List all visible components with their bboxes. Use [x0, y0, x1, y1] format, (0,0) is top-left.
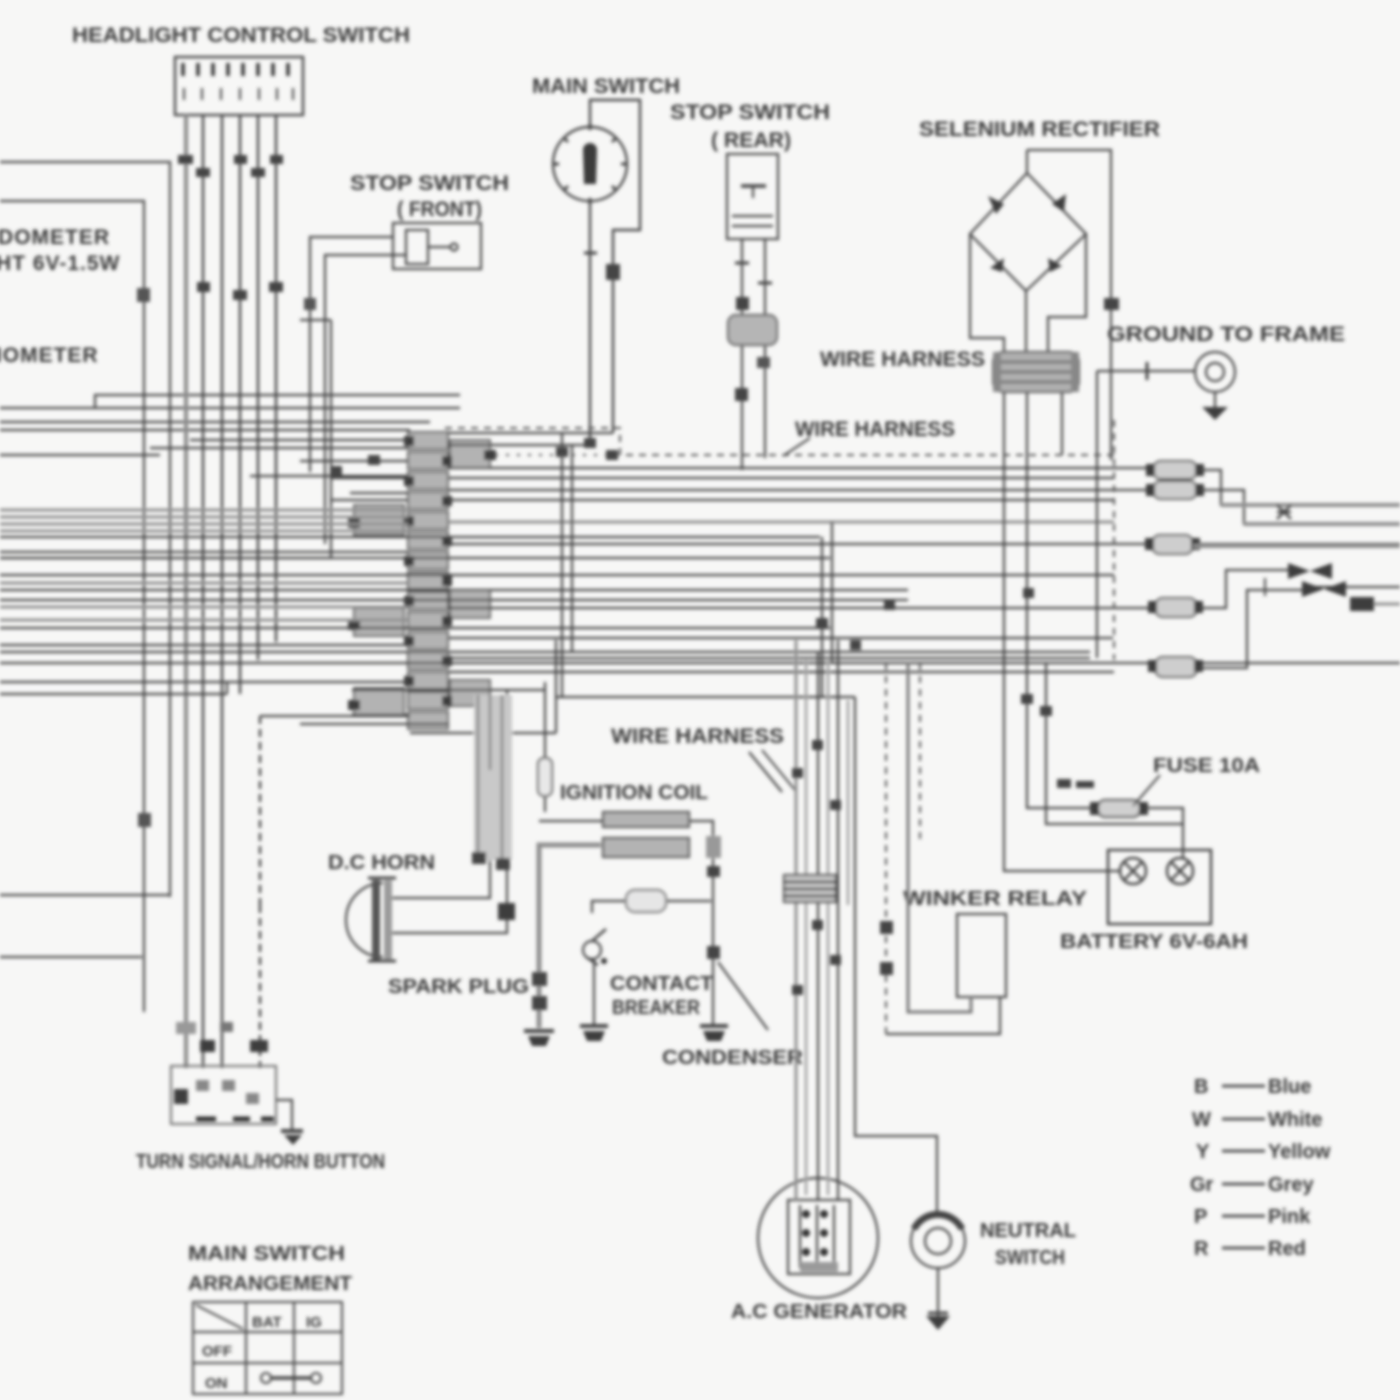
svg-text:SWITCH: SWITCH — [995, 1247, 1065, 1269]
svg-text:TACHOMETER: TACHOMETER — [0, 344, 99, 367]
svg-text:W: W — [1192, 1109, 1211, 1131]
svg-text:IG: IG — [306, 1314, 322, 1331]
svg-text:D.C HORN: D.C HORN — [328, 852, 435, 874]
svg-text:( FRONT): ( FRONT) — [397, 198, 482, 221]
svg-text:BREAKER: BREAKER — [612, 997, 700, 1019]
svg-text:HEADLIGHT CONTROL SWITCH: HEADLIGHT CONTROL SWITCH — [72, 24, 410, 47]
svg-text:ARRANGEMENT: ARRANGEMENT — [188, 1273, 352, 1295]
svg-text:TURN SIGNAL/HORN BUTTON: TURN SIGNAL/HORN BUTTON — [136, 1151, 385, 1173]
svg-text:Pink: Pink — [1268, 1206, 1311, 1228]
svg-text:BATTERY 6V-6AH: BATTERY 6V-6AH — [1060, 931, 1248, 953]
svg-text:WIRE HARNESS: WIRE HARNESS — [611, 725, 784, 748]
svg-text:Y: Y — [1196, 1141, 1210, 1163]
svg-text:WIRE HARNESS: WIRE HARNESS — [820, 348, 985, 371]
svg-text:OFF: OFF — [202, 1343, 232, 1360]
svg-text:IGNITION COIL: IGNITION COIL — [560, 782, 708, 804]
svg-text:ON: ON — [205, 1375, 228, 1392]
svg-text:WIRE HARNESS: WIRE HARNESS — [795, 418, 955, 441]
svg-text:Red: Red — [1268, 1238, 1306, 1260]
svg-text:SELENIUM RECTIFIER: SELENIUM RECTIFIER — [919, 118, 1160, 141]
svg-text:Grey: Grey — [1268, 1174, 1314, 1196]
svg-text:White: White — [1268, 1109, 1322, 1131]
svg-text:CONTACT: CONTACT — [610, 973, 713, 995]
svg-text:WINKER RELAY: WINKER RELAY — [903, 888, 1088, 910]
svg-text:R: R — [1194, 1238, 1209, 1260]
svg-text:MAIN SWITCH: MAIN SWITCH — [532, 75, 680, 98]
svg-text:STOP SWITCH: STOP SWITCH — [350, 172, 509, 195]
svg-text:( REAR): ( REAR) — [711, 129, 791, 152]
svg-text:A.C GENERATOR: A.C GENERATOR — [731, 1301, 908, 1323]
svg-text:MAIN SWITCH: MAIN SWITCH — [188, 1243, 345, 1265]
svg-text:BAT: BAT — [252, 1314, 282, 1331]
svg-text:CONDENSER: CONDENSER — [662, 1047, 804, 1069]
svg-text:SPARK PLUG: SPARK PLUG — [388, 976, 529, 998]
svg-text:SPEEDOMETER: SPEEDOMETER — [0, 226, 110, 249]
svg-text:GROUND TO FRAME: GROUND TO FRAME — [1107, 323, 1345, 346]
svg-text:B: B — [1194, 1076, 1208, 1098]
svg-text:LIGHT 6V-1.5W: LIGHT 6V-1.5W — [0, 252, 120, 275]
svg-text:NEUTRAL: NEUTRAL — [980, 1220, 1076, 1242]
svg-text:FUSE 10A: FUSE 10A — [1153, 755, 1260, 777]
svg-text:STOP SWITCH: STOP SWITCH — [670, 101, 830, 124]
svg-text:Yellow: Yellow — [1268, 1141, 1331, 1163]
svg-text:P: P — [1194, 1206, 1207, 1228]
svg-text:Blue: Blue — [1268, 1076, 1311, 1098]
svg-text:Gr: Gr — [1190, 1174, 1214, 1196]
